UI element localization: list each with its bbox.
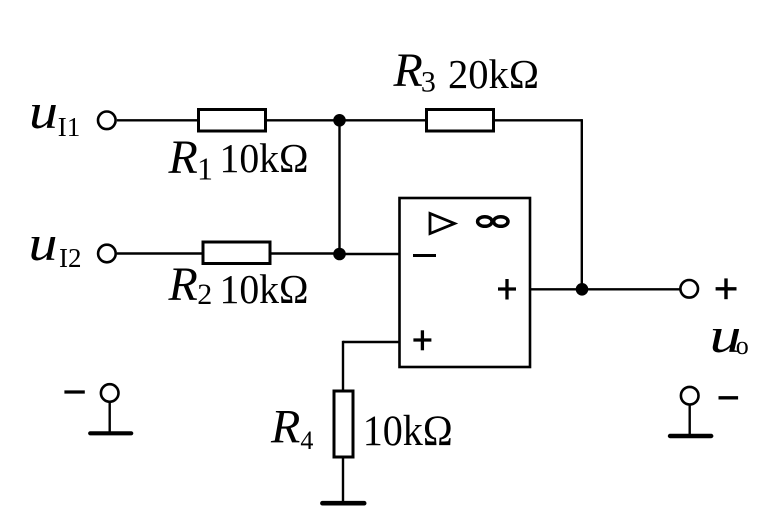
wire node A down to node B <box>338 120 340 254</box>
label u_o <box>710 307 749 363</box>
svg-text:R: R <box>168 258 198 311</box>
op-amp inverting input marker minus <box>413 254 436 257</box>
input terminal u_I1 <box>98 112 116 130</box>
wire op-amp output to terminal <box>530 288 681 290</box>
wire u_I1 to R1 <box>117 119 198 121</box>
reference terminal left bar <box>90 431 131 435</box>
resistor R2 <box>203 242 270 264</box>
op-amp triangle symbol <box>430 214 455 234</box>
svg-text:o: o <box>736 331 749 360</box>
node B junction <box>333 248 346 261</box>
ground bar below R4 <box>322 501 364 506</box>
svg-text:4: 4 <box>300 426 313 455</box>
svg-text:R: R <box>393 44 423 97</box>
label u_I1 <box>29 83 80 142</box>
resistor R4 <box>334 391 353 457</box>
wire R3 to corner <box>494 119 582 121</box>
reference terminal left minus <box>64 390 84 393</box>
svg-text:20kΩ: 20kΩ <box>448 51 539 97</box>
svg-text:1: 1 <box>197 151 213 187</box>
reference terminal right circle <box>681 387 699 405</box>
resistor R3 <box>427 110 494 132</box>
reference terminal right bar <box>670 434 711 438</box>
output node junction <box>576 283 589 296</box>
wire R1 to node A <box>266 119 340 121</box>
label R2 10kOhm <box>168 258 309 312</box>
wire R4 to ground <box>342 457 344 501</box>
op-amp infinity gain symbol <box>478 217 508 227</box>
wire op-amp non-inverting input to R4 <box>343 341 400 391</box>
svg-text:u: u <box>29 215 58 271</box>
label R1 10kOhm <box>168 131 309 187</box>
svg-text:R: R <box>270 401 300 454</box>
reference terminal left stem <box>108 402 110 432</box>
label R4 <box>270 401 313 455</box>
svg-text:10kΩ: 10kΩ <box>220 266 309 312</box>
op-amp non-inverting input marker plus <box>413 330 431 350</box>
wire node A to R3 <box>340 119 427 121</box>
output polarity plus <box>716 278 737 299</box>
resistor R1 <box>199 110 266 132</box>
output terminal u_o <box>680 280 698 298</box>
op-amp U1 body <box>400 198 531 367</box>
svg-text:2: 2 <box>197 278 212 311</box>
svg-text:R: R <box>168 131 198 184</box>
wire u_I2 to R2 <box>117 252 203 254</box>
op-amp output marker plus <box>498 279 516 300</box>
svg-text:10kΩ: 10kΩ <box>220 135 309 181</box>
reference terminal right minus <box>719 396 739 399</box>
svg-text:I2: I2 <box>59 243 82 273</box>
node A junction <box>333 114 346 127</box>
label R3 20kOhm <box>393 44 540 99</box>
input terminal u_I2 <box>98 245 116 263</box>
svg-text:I1: I1 <box>58 112 81 142</box>
wire R2 to node B <box>270 252 340 254</box>
svg-text:10kΩ: 10kΩ <box>363 408 453 455</box>
svg-text:3: 3 <box>421 66 436 99</box>
reference terminal left circle <box>101 384 119 402</box>
label u_I2 <box>29 215 82 273</box>
svg-text:u: u <box>29 83 58 139</box>
wire node B to op-amp inverting input <box>340 253 400 255</box>
reference terminal right stem <box>689 405 691 435</box>
wire feedback vertical down to output node <box>581 119 583 289</box>
